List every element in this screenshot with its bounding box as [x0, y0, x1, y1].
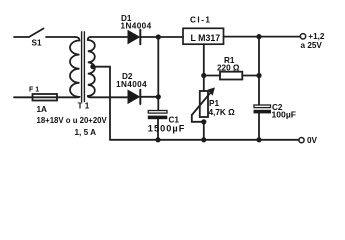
transformer T1 secondary winding — [88, 37, 95, 97]
svg-text:CI-1: CI-1 — [190, 16, 211, 25]
node adj/R1/P1 dot — [201, 73, 206, 78]
svg-text:0V: 0V — [307, 136, 318, 145]
capacitor C2 — [254, 105, 272, 113]
svg-text:+1,2: +1,2 — [308, 32, 325, 41]
transformer T1 core — [82, 32, 85, 102]
fuse F1 — [32, 94, 57, 101]
svg-text:F 1: F 1 — [29, 87, 39, 94]
svg-text:1N4004: 1N4004 — [116, 80, 147, 89]
wire C1 to 0V rail — [157, 119, 159, 140]
svg-text:P1: P1 — [209, 99, 219, 108]
wire CI-1 adj pin down — [203, 44, 205, 75]
node P1-rail dot — [201, 137, 206, 142]
node A dot (rectifier output top) — [156, 34, 161, 39]
wire output to terminal — [259, 36, 300, 38]
wire right rail top segment — [258, 37, 260, 76]
svg-text:1, 5 A: 1, 5 A — [75, 128, 97, 137]
svg-text:S1: S1 — [32, 39, 42, 48]
svg-text:220 Ω: 220 Ω — [217, 64, 240, 73]
potentiometer P1 — [192, 88, 215, 122]
diode D1 — [128, 30, 140, 44]
node 0V terminal — [299, 138, 304, 143]
wire R1 to right rail — [242, 75, 259, 77]
wire S1 to T1 primary top — [46, 36, 75, 38]
wire right rail to C2 — [258, 76, 260, 105]
wire CI-1 output — [224, 36, 260, 38]
svg-text:100µF: 100µF — [272, 110, 297, 120]
wire AC input bottom — [14, 96, 32, 98]
wire T1 secondary bottom to D2 — [91, 96, 129, 98]
wire P1 to 0V rail — [203, 122, 205, 140]
svg-text:1A: 1A — [37, 105, 48, 114]
node output terminal — [300, 34, 305, 39]
node C1-rail dot — [155, 137, 160, 142]
node B dot (rectifier output bottom) — [156, 94, 161, 99]
wire D2 to node B — [141, 96, 158, 98]
svg-text:a 25V: a 25V — [301, 41, 323, 50]
wire C2 to 0V rail — [258, 113, 260, 139]
svg-text:L M317: L M317 — [191, 33, 221, 43]
svg-text:1N4004: 1N4004 — [121, 22, 152, 31]
wire AC input top — [14, 36, 29, 38]
diode D2 — [128, 90, 140, 104]
node R1-right dot — [256, 73, 261, 78]
wire adj node to P1 — [203, 76, 205, 92]
capacitor C1 — [148, 111, 168, 120]
wire center tap to 0V rail — [93, 67, 110, 140]
op-amp U1 regulator CI-1 LM317 box — [183, 28, 224, 44]
node center tap dot — [90, 64, 95, 69]
wire T1 secondary top to D1 — [91, 36, 129, 38]
switch S1 — [29, 29, 44, 38]
wire F1 to T1 primary bottom — [57, 96, 75, 98]
wire 0V bottom rail — [110, 139, 299, 141]
node C2-rail dot — [256, 137, 261, 142]
wire node A to CI-1 input — [158, 36, 183, 38]
svg-text:4,7K Ω: 4,7K Ω — [209, 108, 236, 117]
node output-R1 dot — [256, 34, 261, 39]
wire D1 to node A — [141, 36, 158, 38]
svg-text:1500µF: 1500µF — [148, 124, 186, 134]
svg-text:18+18V o u 20+20V: 18+18V o u 20+20V — [37, 116, 108, 125]
wire rectifier rail node A to node B — [157, 37, 159, 97]
transformer T1 primary winding — [70, 37, 80, 97]
node P1 wiper dot — [201, 119, 206, 124]
wire node B to C1 — [157, 97, 159, 111]
svg-text:T 1: T 1 — [78, 102, 90, 111]
resistor R1 — [220, 72, 242, 80]
wire adj node to R1 — [204, 75, 220, 77]
